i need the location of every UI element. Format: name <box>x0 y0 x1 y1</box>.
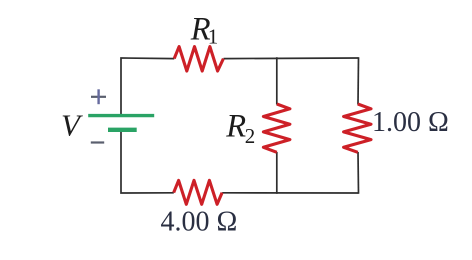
resistor R2 <box>263 104 290 152</box>
wire top-left segment <box>121 58 174 114</box>
wire right branch bottom <box>357 152 360 194</box>
battery minus sign <box>91 141 104 143</box>
resistor 4.00 ohm (bottom) <box>174 180 222 204</box>
resistor R1 <box>174 47 223 71</box>
wire right branch top <box>357 57 360 104</box>
label R1 <box>190 12 219 49</box>
wire middle branch top <box>276 57 278 104</box>
svg-text:4.00 Ω: 4.00 Ω <box>161 206 238 237</box>
svg-text:1: 1 <box>208 25 219 49</box>
svg-text:V: V <box>61 107 83 142</box>
resistor 1.00 ohm (right branch) <box>344 104 371 152</box>
battery V top plate <box>88 114 154 117</box>
wire top-right segment <box>224 57 359 60</box>
battery V bottom plate <box>108 128 137 132</box>
svg-text:1.00 Ω: 1.00 Ω <box>372 107 449 138</box>
wire middle branch bottom <box>276 152 278 194</box>
svg-text:2: 2 <box>245 124 256 148</box>
svg-text:R: R <box>225 109 246 145</box>
label R2 <box>225 109 255 148</box>
battery plus sign <box>91 89 106 104</box>
wire left-bottom segment <box>121 130 174 193</box>
wire bottom-right segment <box>222 192 358 194</box>
